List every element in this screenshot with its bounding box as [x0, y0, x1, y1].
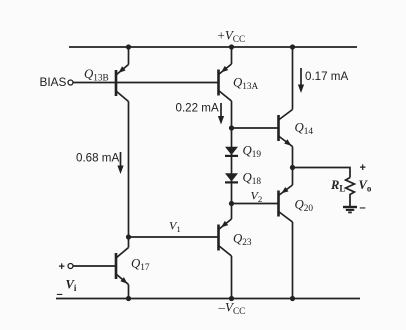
svg-text:0.22 mA: 0.22 mA [176, 102, 219, 115]
svg-text:BIAS: BIAS [40, 75, 67, 89]
svg-text:0.68 mA: 0.68 mA [76, 152, 119, 165]
svg-text:–: – [57, 289, 63, 301]
svg-text:+: + [59, 261, 65, 273]
svg-text:+: + [360, 162, 366, 174]
svg-text:–: – [360, 202, 366, 214]
svg-text:0.17 mA: 0.17 mA [305, 70, 348, 83]
